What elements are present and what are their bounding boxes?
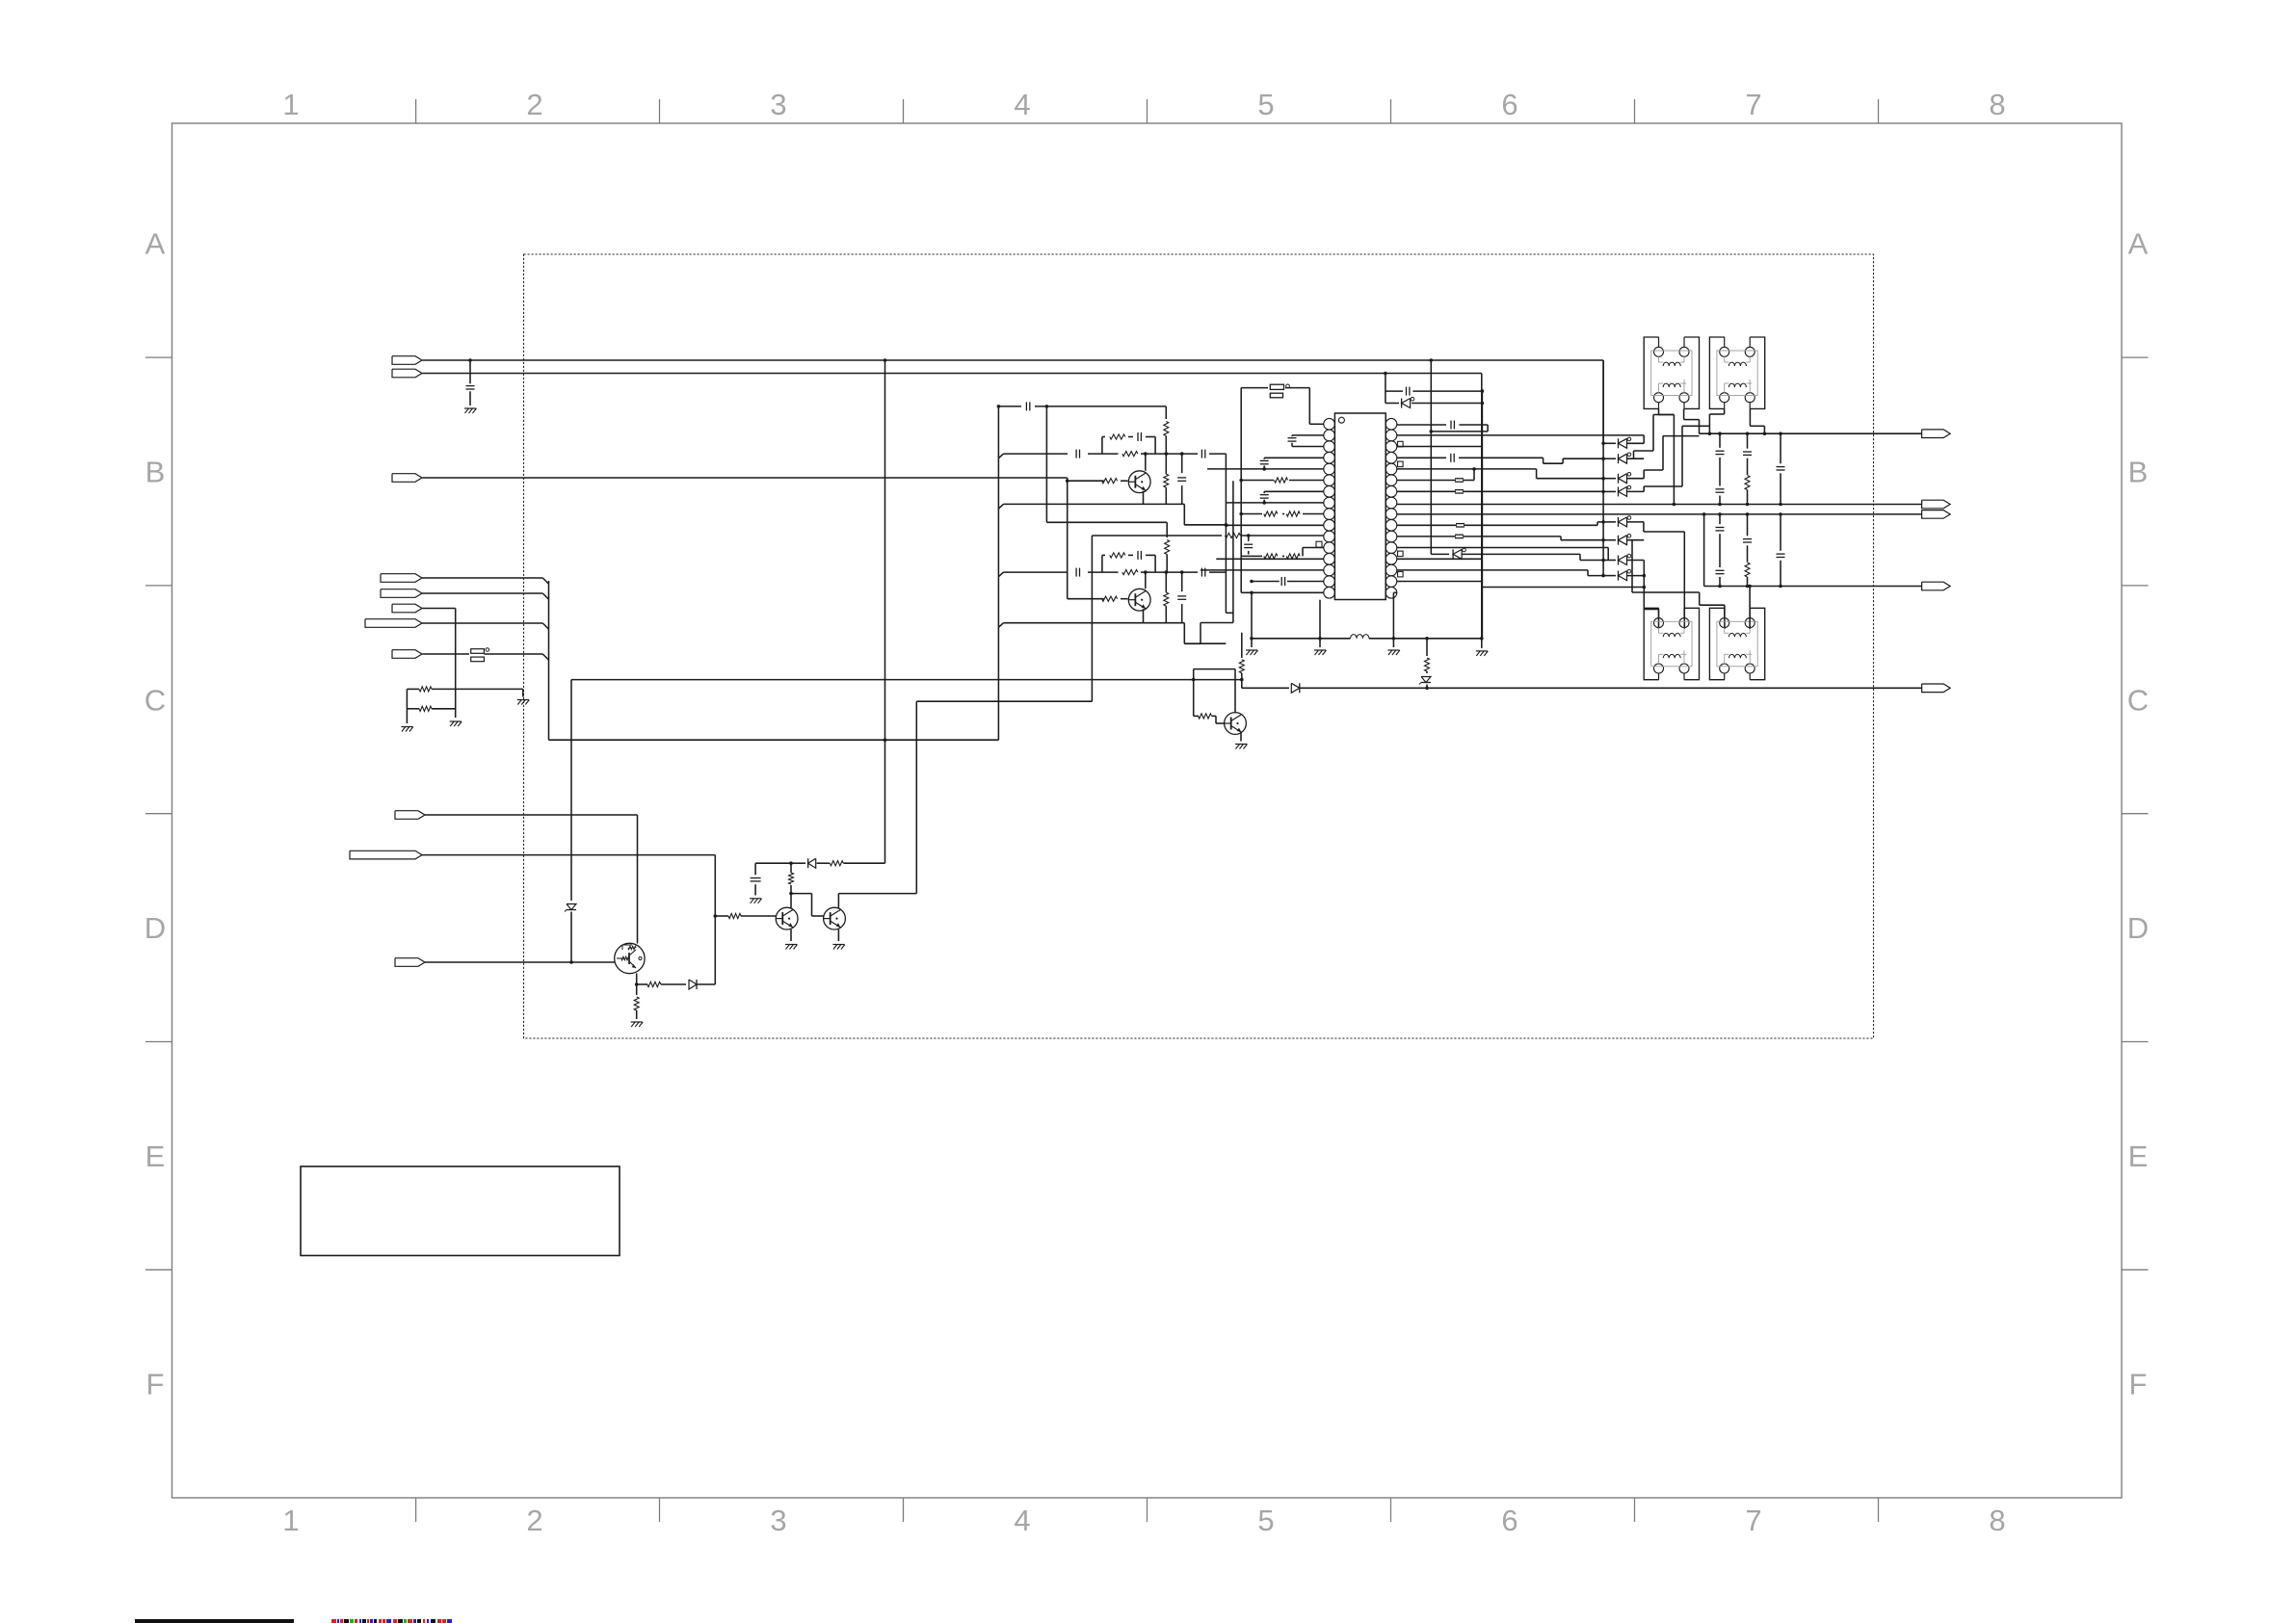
- Q5 base network: [714, 914, 718, 918]
- Q5 emitter ground: [790, 929, 792, 941]
- bottom crop text fragments: [331, 1619, 336, 1623]
- transistor Q4 (digital transistor): [615, 943, 645, 973]
- connector port P10 (long): [350, 851, 422, 859]
- connector port P3: [392, 474, 422, 483]
- svg-text:B: B: [2128, 456, 2149, 489]
- vertical supply rail x918: [884, 358, 887, 362]
- emitter resistor: [1165, 572, 1167, 592]
- output port J4: [1922, 582, 1951, 590]
- output row A: [1700, 432, 1922, 434]
- left pin stub wires: [1240, 388, 1242, 514]
- connector port P9: [395, 811, 425, 820]
- filter module shield: [1644, 337, 1659, 408]
- filter module shield: [1709, 337, 1725, 408]
- output row D: [1704, 586, 1922, 588]
- svg-text:4: 4: [1014, 88, 1030, 121]
- bottom crop bar: [135, 1619, 294, 1623]
- diode column vertical feed: [1602, 360, 1604, 576]
- diode D10 and resistor R to supply rail: [791, 862, 805, 864]
- emitter resistor: [1165, 454, 1167, 474]
- cap leg x1848 (top): [1780, 433, 1781, 463]
- connector port P5: [381, 589, 422, 598]
- resistor-zener chain to bottom output row: [1426, 639, 1428, 656]
- svg-text:5: 5: [1257, 88, 1274, 121]
- right pin row wires: [1397, 424, 1446, 426]
- connector port P8: [392, 650, 422, 659]
- junction and bypass capacitor C1 to ground: [468, 358, 472, 362]
- stage coupling capacitor: [1004, 453, 1069, 455]
- emitter capacitor: [1181, 454, 1183, 473]
- Q4 emitter resistor to ground: [636, 984, 638, 995]
- ferrite bead pair above IC: [1241, 387, 1268, 389]
- cap leg x1785 (top): [1719, 433, 1721, 448]
- module windings: [1651, 621, 1692, 667]
- connector port P7: [365, 619, 422, 628]
- decoupling cap on pin row: [1247, 534, 1251, 537]
- feedback capacitor: [1137, 551, 1139, 560]
- Q3 base resistor: [1199, 714, 1212, 719]
- IC left pin circles: [1324, 418, 1335, 430]
- svg-text:C: C: [2127, 683, 2149, 717]
- branch to stage2 load: [1045, 405, 1049, 408]
- P9 drop to Q4 collector: [637, 815, 639, 944]
- row tick marks left/right: [145, 356, 172, 358]
- signal bus vertical: [548, 581, 550, 740]
- emitter capacitor: [1181, 572, 1183, 591]
- module pins: [1654, 347, 1664, 356]
- stage coupling capacitor: [1004, 571, 1069, 573]
- output port J2: [1922, 500, 1951, 509]
- transistor Q3: [1225, 713, 1247, 735]
- emitter to rail: [1143, 491, 1145, 505]
- connector port P2: [392, 369, 422, 378]
- wire P1 to diode column vertical: [1602, 360, 1604, 443]
- svg-text:3: 3: [770, 88, 786, 121]
- ESD diode array: [1603, 442, 1616, 444]
- svg-text:F: F: [146, 1368, 165, 1401]
- sheet border frame: [172, 123, 2123, 1498]
- output port J3: [1922, 510, 1951, 519]
- ground stubs under rail: [1319, 600, 1321, 639]
- emitter rail to bus: [999, 504, 1004, 509]
- module windings: [1651, 351, 1692, 396]
- rail output corner: [1182, 503, 1185, 505]
- svg-text:8: 8: [1989, 88, 2005, 121]
- svg-text:7: 7: [1745, 1504, 1761, 1537]
- row to bottom risers: [1482, 587, 1644, 589]
- column tick marks top/bottom: [415, 99, 417, 123]
- svg-text:7: 7: [1745, 88, 1761, 121]
- Q4 emitter chain: resistor diode to feedback: [636, 974, 638, 985]
- P6 vertical to ground: [455, 609, 457, 719]
- svg-text:E: E: [2128, 1139, 2149, 1173]
- branch H2 wire: [549, 739, 999, 741]
- P3 branch to second stage base: [1066, 479, 1069, 483]
- stage series resistor: [1122, 452, 1138, 457]
- transistor Q5: [776, 907, 798, 929]
- svg-text:2: 2: [526, 88, 542, 121]
- collector link: [1145, 454, 1147, 471]
- Q3 collector: [1234, 669, 1236, 713]
- wire2 bypass cap and TVS diode to ground riser: [1384, 372, 1387, 376]
- module pins: [1720, 618, 1729, 628]
- resistor riser between amp area and output row: [1241, 633, 1243, 658]
- stage input jog from bus: [999, 454, 1004, 458]
- riser to IC pin row: [916, 700, 1092, 702]
- IC right pin circles: [1386, 418, 1397, 430]
- stage input jog from bus: [999, 572, 1004, 577]
- fuse/jumper pads F1: [471, 649, 485, 654]
- branch H1 wire: [571, 679, 1242, 681]
- svg-text:A: A: [145, 227, 166, 261]
- cap leg x1785 (bottom): [1718, 512, 1722, 516]
- svg-text:8: 8: [1989, 1504, 2005, 1537]
- collector load resistor stage1: [1165, 406, 1167, 419]
- svg-text:D: D: [145, 911, 166, 945]
- base resistor: [1102, 596, 1118, 601]
- zener diode D9: [569, 960, 573, 964]
- bias resistor above Q5: [790, 885, 792, 894]
- Q6 emitter ground: [837, 929, 839, 941]
- emitter rail to bus: [999, 623, 1004, 628]
- output row C: [1704, 513, 1922, 515]
- module FL2 output drops: [1699, 420, 1701, 434]
- svg-text:5: 5: [1257, 1504, 1274, 1537]
- module FL4 feeds from row D: [1749, 587, 1751, 629]
- module pins: [1720, 347, 1729, 356]
- IC U1 body: [1334, 413, 1386, 600]
- row links into IC area: [1184, 524, 1226, 526]
- Q3 base feed from H1: [1192, 678, 1196, 682]
- Q6 collector riser: [837, 894, 839, 908]
- collector link: [1145, 572, 1147, 589]
- svg-text:1: 1: [282, 88, 299, 121]
- svg-text:B: B: [145, 456, 166, 489]
- diode risers to filter modules (top): [1643, 435, 1645, 443]
- Q3 emitter ground: [1240, 732, 1242, 742]
- output port J1: [1922, 430, 1951, 438]
- notes box: [301, 1166, 620, 1256]
- Q5 collector to Q6 base: [790, 894, 792, 908]
- svg-text:6: 6: [1501, 1504, 1517, 1537]
- diode risers to filter modules (bottom): [1643, 522, 1645, 532]
- output row E with diode: [1242, 687, 1289, 689]
- right riser x1538: [1481, 389, 1483, 638]
- transistor: [1128, 471, 1150, 493]
- supply row with capacitor C5: [999, 406, 1022, 407]
- module outline box (dashed): [524, 254, 1874, 1038]
- svg-text:6: 6: [1501, 88, 1517, 121]
- wire risers left of IC: [1225, 454, 1227, 613]
- svg-text:E: E: [145, 1139, 166, 1173]
- feedback resistor: [1101, 437, 1103, 455]
- module pins: [1654, 618, 1664, 628]
- module windings: [1717, 621, 1757, 667]
- connector port P4: [381, 574, 422, 583]
- transistor: [1128, 589, 1150, 611]
- svg-text:2: 2: [526, 1504, 542, 1537]
- cap+res leg x1813 (bottom): [1746, 512, 1750, 516]
- output row B: [1674, 504, 1921, 506]
- output port J5: [1922, 684, 1951, 693]
- connector port P11: [395, 958, 425, 967]
- cap leg x1848 (bottom): [1779, 512, 1782, 516]
- svg-text:4: 4: [1014, 1504, 1030, 1537]
- filter module shield: [1709, 608, 1725, 679]
- output coupling capacitor: [1146, 571, 1198, 573]
- module windings: [1717, 351, 1757, 396]
- svg-text:1: 1: [282, 1504, 299, 1537]
- svg-text:C: C: [145, 683, 166, 717]
- connector port P1: [392, 356, 422, 365]
- svg-text:D: D: [2127, 911, 2149, 945]
- module FL1 output drops: [1658, 408, 1660, 414]
- connector port P6: [392, 604, 422, 613]
- filter module shield: [1644, 608, 1659, 679]
- base resistor: [1102, 479, 1118, 484]
- feedback resistor: [1101, 555, 1103, 572]
- wire P2 drop to IC ground rail: [1481, 374, 1483, 640]
- feedback capacitor: [1137, 432, 1139, 441]
- output coupling capacitor: [1146, 453, 1198, 455]
- decoupling capacitor to ground: [755, 862, 791, 864]
- IC ground rail: [1252, 638, 1351, 640]
- rail output corner: [1182, 622, 1185, 624]
- transistor Q6: [824, 907, 846, 929]
- amplifier bus vertical: [997, 406, 999, 740]
- svg-text:F: F: [2129, 1368, 2148, 1401]
- stage series resistor: [1122, 570, 1138, 575]
- resistor R network to ground (left): [407, 688, 419, 690]
- svg-text:A: A: [2128, 227, 2149, 261]
- svg-text:3: 3: [770, 1504, 786, 1537]
- emitter to rail: [1143, 609, 1145, 623]
- feedback loop vertical: [714, 855, 716, 984]
- right riser from P1 wire: [1430, 358, 1434, 362]
- cap+res leg x1813 (top): [1747, 433, 1749, 449]
